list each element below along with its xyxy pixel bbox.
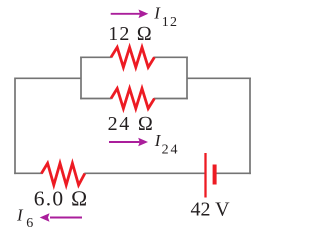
wire: box bottom edge left lead: [80, 98, 111, 100]
svg-text:12 Ω: 12 Ω: [108, 23, 152, 45]
label I12: [153, 4, 177, 30]
wire: middle-left horizontal from left rail to parallel box: [15, 77, 81, 79]
wire: bottom-left segment to 6.0 ohm resistor: [14, 172, 42, 174]
battery 42 V short plate: [213, 165, 217, 185]
svg-text:6.0 Ω: 6.0 Ω: [34, 186, 88, 210]
wire: parallel box right side: [186, 57, 188, 100]
wire: box top edge right lead: [154, 56, 188, 58]
wire: box top edge left lead: [80, 56, 111, 58]
svg-text:24 Ω: 24 Ω: [108, 113, 153, 135]
resistor 12 ohm (zigzag): [111, 47, 154, 67]
svg-text:42 V: 42 V: [191, 199, 231, 221]
resistor 6.0 ohm (zigzag): [41, 163, 84, 185]
wire: right rail vertical: [249, 78, 251, 175]
wire: bottom segment from 6.0 ohm resistor to battery: [84, 172, 204, 174]
wire: parallel box left side: [80, 57, 82, 100]
svg-text:24: 24: [162, 142, 178, 157]
current arrow I24 (points right): [109, 138, 148, 147]
svg-text:6: 6: [26, 216, 33, 231]
label I6: [16, 206, 33, 232]
resistor 24 ohm (zigzag): [111, 89, 154, 109]
battery 42 V long plate: [204, 153, 206, 198]
svg-text:12: 12: [162, 15, 177, 30]
wire: left rail vertical: [14, 78, 16, 175]
wire: bottom-right segment from battery to right rail: [216, 172, 251, 174]
current arrow I6 (points left): [40, 213, 82, 222]
wire: middle-right horizontal from parallel box to right rail: [187, 77, 251, 79]
label I24: [154, 131, 178, 158]
current arrow I12 (points right): [111, 10, 149, 19]
wire: box bottom edge right lead: [154, 98, 188, 100]
